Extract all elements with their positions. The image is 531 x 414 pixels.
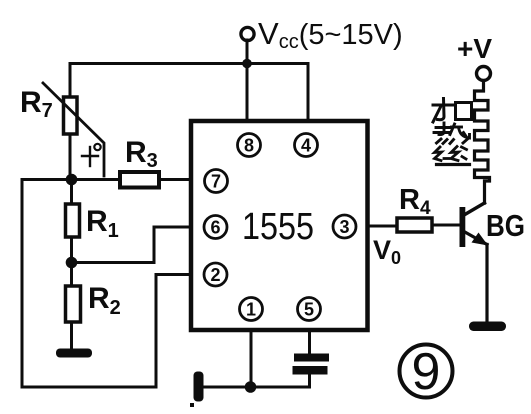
op-amp U1 1555 IC box xyxy=(191,121,368,330)
transistor BG xyxy=(460,203,489,322)
wire pin2 xyxy=(156,275,191,388)
label jia (heating) xyxy=(433,99,472,123)
pin 7 xyxy=(205,170,228,193)
node A xyxy=(66,174,78,186)
pin 2 xyxy=(204,263,227,286)
label 1555 xyxy=(242,206,314,248)
svg-text:BG: BG xyxy=(486,208,525,243)
heater element xyxy=(475,81,490,203)
label R4 xyxy=(399,184,431,219)
pin 1 xyxy=(240,298,263,321)
svg-text:1: 1 xyxy=(246,300,256,320)
svg-text:1555: 1555 xyxy=(242,206,314,248)
pin 5 xyxy=(298,298,321,321)
node Vcc junction xyxy=(242,59,252,69)
node B xyxy=(66,257,78,269)
svg-text:4: 4 xyxy=(301,136,311,156)
wire bottom rail xyxy=(204,386,310,389)
label BG xyxy=(486,208,525,243)
wire pin4 drop xyxy=(307,64,310,122)
svg-text:2: 2 xyxy=(210,265,220,285)
wire pin6 xyxy=(72,227,192,263)
capacitor C xyxy=(293,330,330,387)
svg-text:7: 7 xyxy=(211,172,221,192)
label re (heating) xyxy=(434,123,470,144)
thermistor arrow R7 xyxy=(43,83,104,176)
svg-text:3: 3 xyxy=(339,217,349,237)
pin 3 xyxy=(333,215,356,238)
wire left rail xyxy=(21,180,24,388)
pin 4 xyxy=(295,134,318,157)
svg-text:6: 6 xyxy=(210,218,220,238)
pin 8 xyxy=(238,134,261,157)
resistor R1 xyxy=(66,180,80,263)
label R3 xyxy=(125,136,158,172)
label t xyxy=(82,144,101,166)
terminal +V xyxy=(477,67,491,92)
svg-text:+V: +V xyxy=(457,33,492,64)
ground BG emitter xyxy=(469,322,506,332)
label V0 xyxy=(373,235,401,268)
label si (wire) xyxy=(435,147,470,165)
resistor R7 (thermistor) xyxy=(64,64,78,180)
terminal Vcc xyxy=(241,27,254,63)
svg-text:5: 5 xyxy=(304,300,314,320)
wire junction row xyxy=(22,178,120,181)
pin 6 xyxy=(204,216,227,239)
label R7 xyxy=(20,86,53,122)
ground R2 xyxy=(56,349,92,358)
wire pin3 out xyxy=(367,225,397,228)
node C xyxy=(245,381,257,393)
wire pin1 down xyxy=(250,330,253,387)
ground bottom rail xyxy=(190,372,204,408)
figure number 9 xyxy=(400,343,453,401)
resistor R3 xyxy=(120,172,191,188)
label Vcc(5~15V) xyxy=(258,16,403,53)
svg-text:8: 8 xyxy=(244,136,254,156)
label +V xyxy=(457,33,492,64)
label R2 xyxy=(88,282,121,319)
wire bottom left xyxy=(22,386,156,389)
svg-text:9: 9 xyxy=(412,343,441,401)
resistor R2 xyxy=(66,263,81,350)
wire pin8 drop xyxy=(246,64,249,122)
label R1 xyxy=(86,205,119,242)
wire top rail xyxy=(70,62,308,65)
resistor R4 xyxy=(397,218,461,232)
